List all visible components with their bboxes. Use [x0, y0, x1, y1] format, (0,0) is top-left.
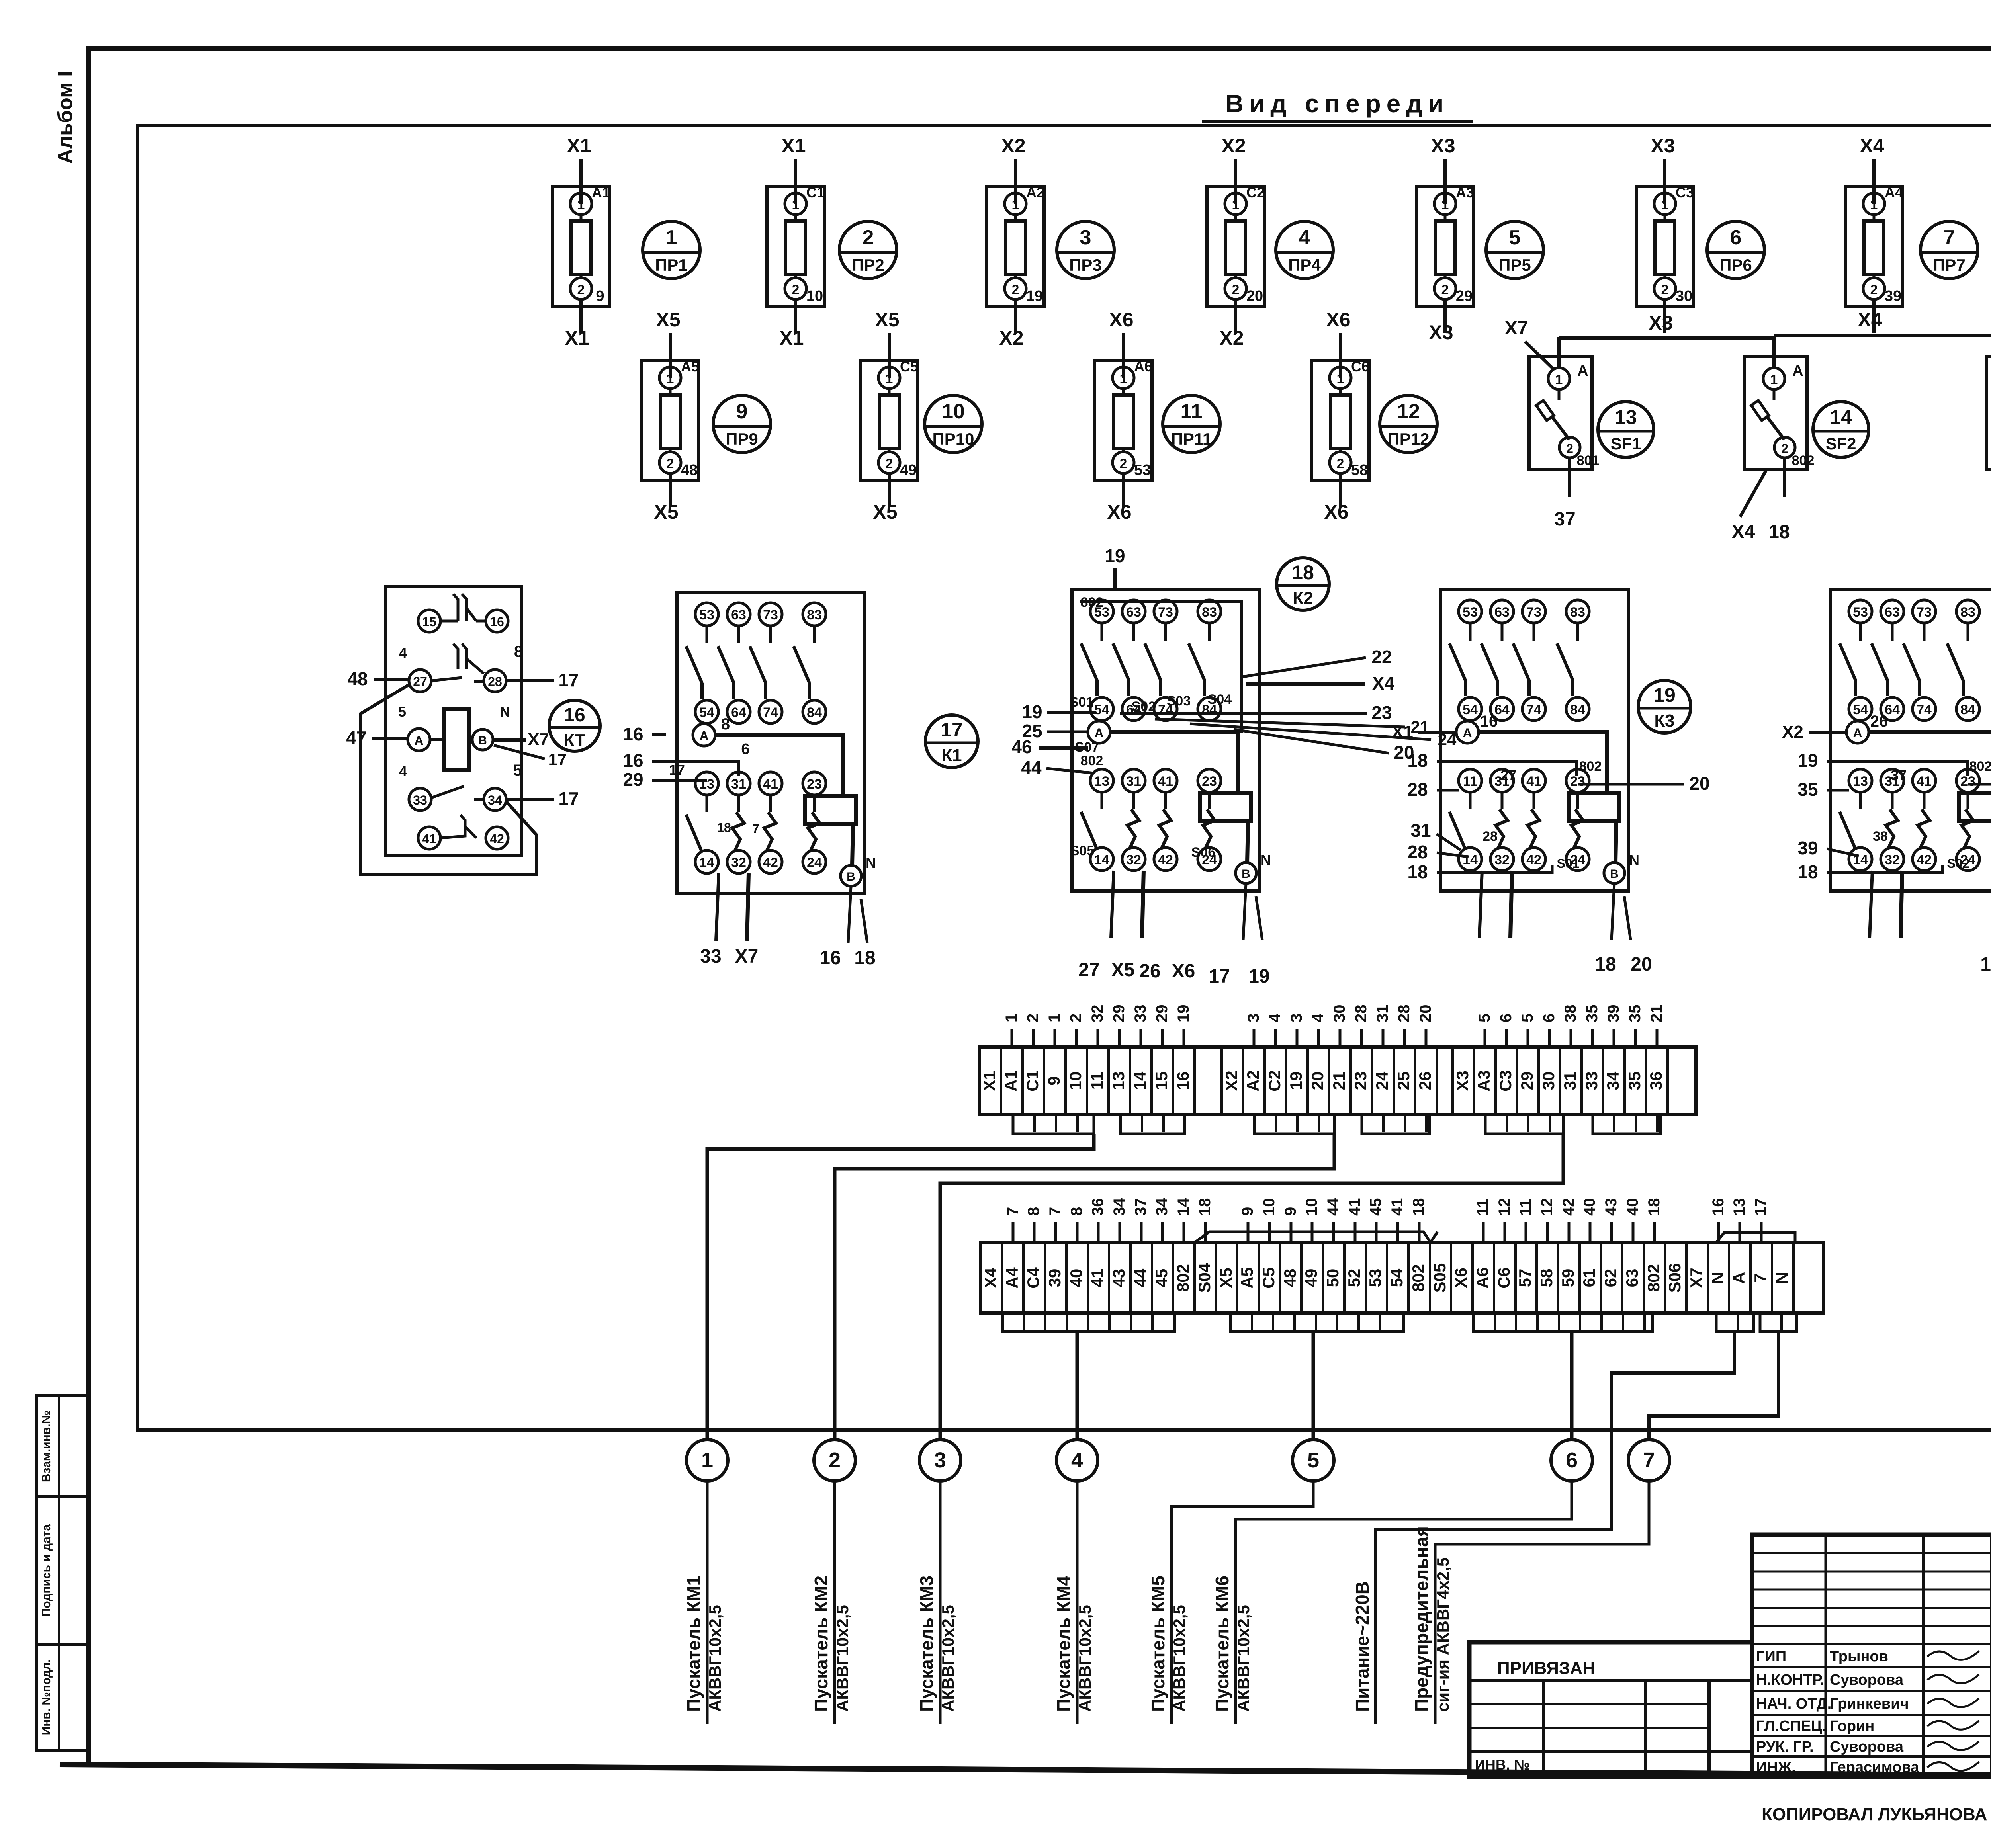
svg-text:28: 28	[1407, 779, 1428, 800]
terminal 13 wire tick 29	[1118, 1029, 1121, 1047]
svg-text:19: 19	[1248, 966, 1269, 987]
fuse ПР4	[1207, 184, 1265, 307]
terminal 802 cell (lower strip)	[1407, 1242, 1410, 1313]
wire 47 to КТ A	[372, 737, 408, 740]
svg-text:Пускатель КМ5: Пускатель КМ5	[1148, 1576, 1168, 1712]
svg-text:АКВВГ10х2,5: АКВВГ10х2,5	[833, 1605, 852, 1712]
svg-text:S03: S03	[1167, 693, 1191, 709]
svg-text:41: 41	[763, 777, 778, 792]
svg-text:X6: X6	[1172, 961, 1195, 982]
svg-text:7: 7	[1046, 1207, 1064, 1216]
svg-text:31: 31	[731, 777, 746, 792]
svg-text:ПР5: ПР5	[1498, 256, 1531, 274]
relay К3 body	[1440, 590, 1628, 891]
wire from strip2 N to power feed	[1376, 1332, 1735, 1724]
svg-text:20: 20	[1308, 1072, 1327, 1090]
svg-text:48: 48	[1281, 1269, 1299, 1287]
jumper bus 18 over S04-802	[1195, 1232, 1438, 1242]
svg-text:3: 3	[1080, 226, 1091, 249]
svg-text:6: 6	[1730, 226, 1742, 249]
svg-text:28: 28	[488, 674, 502, 689]
terminal 30 cell	[1537, 1047, 1540, 1115]
svg-text:А: А	[1577, 363, 1588, 379]
terminal 16 cell	[1172, 1047, 1174, 1115]
svg-text:X2: X2	[1782, 722, 1803, 742]
svg-text:N: N	[1708, 1272, 1727, 1284]
position indicator 10/ПР10	[925, 395, 982, 453]
К4 wire 18 to S02	[1827, 865, 1942, 873]
svg-text:17: 17	[558, 788, 579, 809]
svg-text:63: 63	[731, 608, 746, 623]
terminal С4 wire tick 8 (lower strip)	[1033, 1222, 1036, 1242]
svg-text:А1: А1	[592, 184, 610, 201]
svg-text:4: 4	[399, 763, 407, 779]
svg-text:Пускатель КМ6: Пускатель КМ6	[1212, 1576, 1232, 1712]
svg-text:X5: X5	[873, 501, 897, 523]
svg-text:30: 30	[1676, 288, 1692, 305]
svg-text:X5: X5	[1111, 959, 1135, 981]
svg-text:35: 35	[1626, 1005, 1644, 1023]
terminal 61 wire tick 40 (lower strip)	[1589, 1222, 1592, 1242]
svg-text:А1: А1	[1001, 1070, 1020, 1092]
position indicator 16/КТ	[549, 700, 600, 751]
К4 wire 23 to 21	[1968, 783, 1991, 786]
svg-text:S02: S02	[1947, 856, 1970, 871]
svg-text:2: 2	[577, 282, 585, 297]
terminal N wire tick 16 (lower strip)	[1717, 1222, 1720, 1242]
svg-text:84: 84	[807, 705, 822, 720]
svg-text:40: 40	[1067, 1269, 1085, 1287]
svg-text:А: А	[1853, 726, 1862, 740]
svg-text:41: 41	[1389, 1198, 1406, 1216]
terminal 48 wire tick 9 (lower strip)	[1290, 1222, 1293, 1242]
svg-text:59: 59	[1559, 1269, 1577, 1287]
svg-text:Инв. №подл.: Инв. №подл.	[40, 1659, 53, 1735]
К2 left wire 46 to A	[1039, 746, 1088, 750]
svg-text:39: 39	[1605, 1005, 1622, 1023]
svg-text:63: 63	[1126, 605, 1141, 620]
svg-text:54: 54	[1853, 702, 1868, 717]
cable lead 6	[1236, 1481, 1572, 1724]
terminal А6 wire tick 11 (lower strip)	[1482, 1222, 1485, 1242]
svg-text:34: 34	[1604, 1071, 1622, 1090]
svg-text:39: 39	[1797, 838, 1818, 858]
terminal 802 wire tick 14 (lower strip)	[1183, 1222, 1185, 1242]
svg-text:С3: С3	[1676, 184, 1694, 201]
svg-text:11: 11	[1087, 1072, 1106, 1090]
svg-text:S01: S01	[1557, 856, 1580, 871]
svg-text:19: 19	[1022, 701, 1042, 722]
svg-text:АКВВГ10х2,5: АКВВГ10х2,5	[706, 1605, 724, 1712]
svg-text:2: 2	[792, 282, 800, 297]
svg-text:6: 6	[1540, 1014, 1558, 1022]
svg-text:9: 9	[736, 400, 748, 423]
svg-text:42: 42	[1526, 852, 1541, 867]
К3 wire 28 to pin 14	[1437, 853, 1469, 857]
fuse ПР7	[1845, 184, 1903, 307]
terminal 29 wire tick 5	[1527, 1029, 1529, 1047]
svg-text:17: 17	[548, 750, 567, 769]
svg-text:2: 2	[1870, 282, 1878, 297]
svg-text:16: 16	[1709, 1198, 1727, 1216]
terminal С5 cell (lower strip)	[1258, 1242, 1260, 1313]
svg-text:73: 73	[1526, 605, 1541, 620]
terminal 40 cell (lower strip)	[1065, 1242, 1068, 1313]
terminal С5 wire tick 10 (lower strip)	[1268, 1222, 1271, 1242]
svg-text:19: 19	[1797, 750, 1818, 771]
terminal 14 cell	[1129, 1047, 1131, 1115]
svg-text:61: 61	[1580, 1269, 1598, 1287]
terminal 41 cell (lower strip)	[1087, 1242, 1089, 1313]
fuse ПР2 top wire	[794, 159, 797, 204]
svg-text:41: 41	[1088, 1269, 1107, 1287]
К3 wire 23 to 20	[1578, 783, 1684, 786]
terminal 39 wire tick 7 (lower strip)	[1054, 1222, 1057, 1242]
svg-text:32: 32	[1494, 852, 1510, 867]
fuse ПР1 bottom wire	[579, 299, 583, 333]
svg-text:37: 37	[1891, 767, 1907, 783]
svg-text:11: 11	[1517, 1199, 1534, 1216]
terminal С1 cell	[1021, 1047, 1024, 1115]
switch SF1 bottom wire	[1568, 458, 1571, 497]
terminal 50 wire tick 44 (lower strip)	[1332, 1222, 1335, 1242]
К3 wire 28 to pin 11	[1437, 789, 1459, 792]
svg-text:Суворова: Суворова	[1830, 1672, 1904, 1688]
wire bus X4 between SF2 and SF3	[1774, 334, 1991, 337]
terminal 35 cell	[1623, 1047, 1626, 1115]
terminal 802 cell (lower strip)	[1172, 1242, 1174, 1313]
svg-text:43: 43	[1602, 1198, 1620, 1216]
fuse ПР3	[987, 184, 1044, 307]
svg-text:31: 31	[1410, 820, 1431, 841]
svg-text:S06: S06	[1665, 1263, 1684, 1293]
svg-text:А: А	[414, 733, 423, 748]
svg-text:X5: X5	[875, 309, 899, 331]
svg-text:24: 24	[807, 855, 822, 870]
terminal 43 cell (lower strip)	[1108, 1242, 1110, 1313]
svg-text:А3: А3	[1456, 184, 1474, 201]
svg-text:14: 14	[699, 855, 714, 870]
terminal 41 wire tick 36 (lower strip)	[1097, 1222, 1100, 1242]
svg-text:8: 8	[721, 715, 730, 733]
svg-text:А2: А2	[1026, 184, 1044, 201]
svg-text:37: 37	[1132, 1198, 1150, 1216]
svg-text:4: 4	[1071, 1448, 1083, 1472]
svg-text:25: 25	[1394, 1072, 1413, 1090]
К2 left wire 44	[1046, 768, 1094, 773]
terminal strip X4 X5 X6 X7	[981, 1242, 1824, 1313]
cable lead 3	[939, 1481, 942, 1724]
svg-text:11: 11	[1181, 400, 1203, 423]
svg-text:27: 27	[413, 674, 427, 689]
terminal N cell (lower strip)	[1707, 1242, 1709, 1313]
terminal 26 wire tick 20	[1425, 1029, 1428, 1047]
К2 internal bus 802	[1080, 601, 1242, 733]
svg-text:X3: X3	[1651, 135, 1675, 157]
svg-text:S05: S05	[1430, 1263, 1449, 1293]
svg-text:X1: X1	[565, 327, 589, 349]
svg-text:17: 17	[669, 762, 685, 778]
relay К4 bottom leads	[1870, 871, 1991, 940]
terminal 31 cell	[1559, 1047, 1561, 1115]
svg-text:2: 2	[1024, 1014, 1042, 1022]
svg-text:73: 73	[1917, 605, 1932, 620]
fuse ПР1	[552, 184, 610, 307]
svg-text:1: 1	[1012, 197, 1019, 213]
svg-text:18: 18	[1292, 561, 1314, 584]
fuse ПР9	[642, 358, 699, 481]
К4 wire 35 to pin 13	[1827, 789, 1849, 792]
wire 16 to К1 contact 31	[652, 761, 739, 776]
relay К1 body	[677, 592, 865, 894]
relay К1 lower contact pins	[686, 772, 826, 873]
К2 left wires 19 25	[1047, 711, 1096, 714]
terminal X4 cell (lower strip)	[980, 1242, 982, 1313]
terminal 44 wire tick 37 (lower strip)	[1140, 1222, 1143, 1242]
svg-text:X6: X6	[1451, 1268, 1470, 1288]
svg-text:19: 19	[1287, 1072, 1305, 1090]
svg-text:38: 38	[1873, 829, 1888, 844]
relay К4 coil terminal A	[1846, 713, 1888, 743]
svg-text:X1: X1	[1392, 722, 1413, 742]
fuse ПР5 top wire	[1443, 159, 1447, 204]
time relay КТ body	[385, 587, 522, 855]
svg-text:5: 5	[1307, 1448, 1319, 1472]
terminal А5 wire tick 9 (lower strip)	[1247, 1222, 1250, 1242]
svg-text:35: 35	[1797, 779, 1818, 800]
svg-text:11: 11	[1474, 1199, 1492, 1216]
svg-text:Предупредительная: Предупредительная	[1411, 1526, 1432, 1712]
terminal 53 cell (lower strip)	[1365, 1242, 1367, 1313]
cable lead 5	[1172, 1481, 1313, 1724]
relay К2 coil	[1200, 793, 1251, 821]
fuse ПР11 top wire	[1122, 333, 1125, 378]
svg-text:4: 4	[1309, 1013, 1327, 1022]
panel circle 5	[1293, 1440, 1334, 1481]
svg-text:ПР2: ПР2	[852, 256, 884, 274]
wire X2 to relay К4 terminal A	[1809, 731, 1846, 734]
position indicator 17/К1	[925, 715, 978, 768]
svg-text:А4: А4	[1003, 1267, 1021, 1289]
svg-text:А6: А6	[1134, 358, 1152, 375]
svg-text:X7: X7	[1505, 318, 1528, 339]
svg-text:S02: S02	[1132, 699, 1156, 714]
terminal А2 cell	[1242, 1047, 1244, 1115]
terminal 9 cell	[1043, 1047, 1045, 1115]
svg-text:29: 29	[1110, 1005, 1128, 1023]
strip2 bracket A5-54	[1230, 1313, 1404, 1332]
svg-text:53: 53	[1853, 605, 1868, 620]
terminal S05 cell (lower strip)	[1429, 1242, 1431, 1313]
svg-text:1: 1	[1337, 371, 1344, 387]
svg-text:10: 10	[1303, 1198, 1320, 1216]
terminal 49 cell (lower strip)	[1300, 1242, 1303, 1313]
terminal А cell (lower strip)	[1728, 1242, 1730, 1313]
terminal 10 cell	[1064, 1047, 1067, 1115]
fuse ПР10 top wire	[888, 333, 891, 378]
svg-text:5: 5	[513, 762, 522, 779]
svg-text:40: 40	[1624, 1198, 1641, 1216]
relay К2 coil wire	[1110, 732, 1238, 793]
svg-text:4: 4	[1266, 1013, 1284, 1022]
svg-text:ПР1: ПР1	[655, 256, 688, 274]
svg-text:1: 1	[666, 226, 677, 249]
svg-text:3: 3	[934, 1448, 946, 1472]
svg-text:X2: X2	[1219, 327, 1244, 349]
svg-text:20: 20	[1689, 773, 1709, 794]
svg-text:2: 2	[1067, 1014, 1085, 1022]
svg-text:74: 74	[1526, 702, 1541, 717]
svg-text:43: 43	[1109, 1269, 1128, 1287]
svg-text:74: 74	[1917, 702, 1932, 717]
svg-text:63: 63	[1494, 605, 1510, 620]
relay К3 upper contact pins	[1449, 600, 1589, 721]
title block	[1752, 1535, 1991, 1777]
position indicator 6/ПР6	[1707, 221, 1764, 279]
svg-text:5: 5	[1476, 1014, 1493, 1022]
relay К3 coil	[1569, 793, 1619, 821]
svg-text:30: 30	[1331, 1005, 1348, 1023]
terminal X1 cell	[978, 1047, 981, 1115]
fuse ПР10	[861, 358, 918, 481]
terminal 58 cell (lower strip)	[1535, 1242, 1538, 1313]
position indicator 2/ПР2	[839, 221, 897, 279]
svg-text:S07: S07	[1075, 740, 1099, 755]
svg-text:57: 57	[1516, 1269, 1534, 1287]
terminal С3 cell	[1494, 1047, 1497, 1115]
svg-text:13: 13	[1094, 774, 1109, 789]
svg-text:Пускатель КМ2: Пускатель КМ2	[811, 1576, 831, 1712]
fuse ПР2 bottom wire	[794, 299, 797, 333]
svg-text:19: 19	[1980, 954, 1991, 975]
cable lead 4	[1076, 1481, 1079, 1724]
jumper bus over A-7-N	[1716, 1233, 1795, 1242]
svg-text:1: 1	[1441, 197, 1449, 213]
svg-text:Подпись и дата: Подпись и дата	[40, 1524, 53, 1617]
switch SF2 top wire	[1772, 337, 1776, 368]
svg-text:КОПИРОВАЛ ЛУКЬЯНОВА: КОПИРОВАЛ ЛУКЬЯНОВА	[1762, 1805, 1987, 1824]
svg-text:802: 802	[1792, 453, 1815, 468]
К2 wires to 23 21 24 20	[1120, 712, 1367, 715]
svg-text:35: 35	[1625, 1072, 1644, 1090]
svg-text:41: 41	[1526, 774, 1541, 789]
svg-text:1: 1	[1120, 371, 1127, 387]
svg-text:8: 8	[514, 643, 523, 660]
svg-text:28: 28	[1482, 829, 1498, 844]
svg-text:7: 7	[1004, 1207, 1021, 1216]
wire 29/17 to К1 contact 13	[652, 779, 707, 782]
terminal 59 cell (lower strip)	[1557, 1242, 1559, 1313]
svg-text:2: 2	[1337, 456, 1344, 471]
relay К1 coil wire	[715, 735, 843, 796]
svg-text:35: 35	[1583, 1005, 1601, 1023]
КТ coil terminal A	[398, 703, 430, 751]
svg-text:Вид спереди: Вид спереди	[1225, 89, 1449, 118]
relay К1 bottom leads	[716, 873, 867, 943]
svg-text:X4: X4	[1372, 673, 1395, 693]
svg-text:ПР11: ПР11	[1171, 430, 1212, 448]
svg-text:3: 3	[1245, 1014, 1262, 1022]
svg-text:46: 46	[1011, 736, 1032, 757]
terminal 802 wire tick 18 (lower strip)	[1653, 1222, 1656, 1242]
svg-text:18: 18	[854, 947, 875, 969]
strip2 bracket A4-45	[1003, 1313, 1175, 1332]
svg-text:63: 63	[1623, 1269, 1641, 1287]
svg-text:23: 23	[1570, 774, 1585, 789]
svg-text:8: 8	[1025, 1207, 1042, 1216]
fuse ПР9 bottom wire	[669, 473, 672, 507]
relay К2 lower contact pins	[1081, 769, 1221, 871]
svg-text:18: 18	[1797, 861, 1818, 882]
relay К1 coil terminal B	[841, 824, 876, 886]
svg-text:X4: X4	[1858, 309, 1882, 331]
svg-text:801: 801	[1577, 453, 1600, 468]
svg-text:42: 42	[490, 832, 504, 846]
terminal 30 wire tick 6	[1548, 1029, 1551, 1047]
panel circle 2	[814, 1440, 855, 1481]
terminal 36 cell	[1645, 1047, 1647, 1115]
svg-text:N: N	[1261, 852, 1271, 868]
КТ pins 41 42	[418, 815, 508, 849]
svg-text:X1: X1	[567, 135, 591, 157]
svg-text:16: 16	[1173, 1072, 1192, 1090]
svg-text:X7: X7	[1687, 1268, 1705, 1288]
svg-text:18: 18	[1768, 522, 1790, 543]
svg-text:1: 1	[1555, 372, 1563, 387]
strip2 bracket A6-63	[1473, 1313, 1653, 1332]
relay К4 coil	[1959, 793, 1991, 821]
terminal 48 cell (lower strip)	[1279, 1242, 1281, 1313]
terminal С2 cell	[1263, 1047, 1266, 1115]
fuse ПР4 top wire	[1234, 159, 1237, 204]
svg-text:36: 36	[1647, 1072, 1665, 1090]
position indicator 7/ПР7	[1921, 221, 1978, 279]
svg-text:АКВВГ10х2,5: АКВВГ10х2,5	[939, 1605, 957, 1712]
svg-text:5: 5	[1509, 226, 1521, 249]
position indicator 4/ПР4	[1276, 221, 1333, 279]
svg-text:32: 32	[731, 855, 746, 870]
К3 wire 18 to 802	[1437, 761, 1577, 776]
svg-text:ПР7: ПР7	[1933, 256, 1966, 274]
view title Вид спереди	[1202, 89, 1473, 121]
svg-text:42: 42	[1158, 852, 1173, 867]
svg-text:20: 20	[1417, 1005, 1434, 1023]
svg-text:ПР12: ПР12	[1388, 430, 1430, 448]
svg-text:С5: С5	[900, 358, 918, 375]
relay К3 lower contact pins	[1449, 769, 1589, 871]
fuse ПР5 bottom wire	[1443, 299, 1447, 333]
terminal S04 wire tick 18 (lower strip)	[1204, 1222, 1207, 1242]
svg-text:45: 45	[1152, 1269, 1171, 1287]
svg-text:29: 29	[1153, 1005, 1171, 1023]
svg-text:31: 31	[1561, 1072, 1579, 1090]
svg-text:Герасимова: Герасимова	[1830, 1759, 1919, 1776]
fuse ПР3 bottom wire	[1014, 299, 1017, 333]
relay К1 coil terminal A	[693, 715, 730, 746]
terminal 16 wire tick 19	[1183, 1029, 1185, 1047]
position indicator 18/К2	[1277, 558, 1329, 610]
svg-text:23: 23	[1202, 774, 1217, 789]
svg-text:40: 40	[1581, 1198, 1598, 1216]
svg-text:X1: X1	[779, 327, 804, 349]
svg-text:X5: X5	[1217, 1268, 1235, 1288]
КТ contact symbol 2	[453, 644, 484, 674]
switch SF2 bottom wire	[1783, 458, 1786, 497]
terminal 21 cell	[1328, 1047, 1330, 1115]
svg-text:X7: X7	[735, 946, 759, 967]
attachment box Привязан	[1469, 1642, 1752, 1777]
wire from strip1 cell 21 to panel 2	[835, 1134, 1334, 1440]
